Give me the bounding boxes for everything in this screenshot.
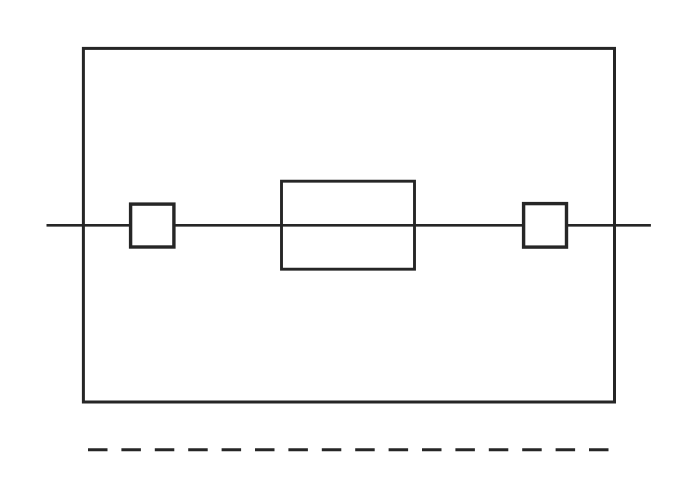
clamp contact left [131,204,174,247]
terminal body outline [83,48,614,402]
dashed marker line [88,448,609,451]
fuse F1 [282,181,415,269]
wire [47,224,651,227]
clamp contact right [524,204,567,248]
